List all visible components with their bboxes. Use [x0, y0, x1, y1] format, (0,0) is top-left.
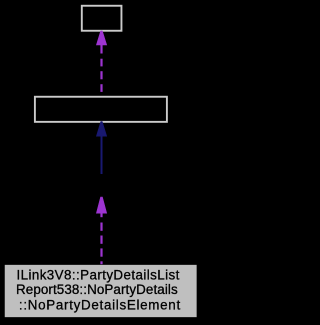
- arrowhead: [96, 197, 106, 213]
- arrowhead: [96, 31, 106, 45]
- node box middle (intermediate class, label hidden): [35, 97, 167, 122]
- usage arrow (dashed, darkorchid) from middle node to top node: [96, 31, 106, 92]
- svg-text:Report538::NoPartyDetails: Report538::NoPartyDetails: [16, 282, 178, 297]
- usage arrow (dashed, darkorchid) from bottom node upward (label hidden): [96, 197, 106, 264]
- svg-text:::NoPartyDetailsElement: ::NoPartyDetailsElement: [19, 298, 181, 313]
- wire dashed stem: [100, 45, 102, 92]
- arrowhead: [96, 122, 106, 137]
- wire solid stem: [101, 136, 103, 174]
- node box bottom: current class ILink3V8::PartyDetailsListReport538::NoPartyDetails::NoPartyDetailsElement: [5, 265, 197, 317]
- svg-text:ILink3V8::PartyDetailsList: ILink3V8::PartyDetailsList: [16, 267, 179, 282]
- inheritance arrow (solid, midnightblue) from bottom node to middle node: [96, 122, 106, 175]
- wire dashed stem: [100, 213, 102, 264]
- node label text: ILink3V8::PartyDetailsListReport538::NoPartyDetails::NoPartyDetailsElement: [16, 267, 181, 312]
- node box top (base class, label hidden): [82, 6, 122, 31]
